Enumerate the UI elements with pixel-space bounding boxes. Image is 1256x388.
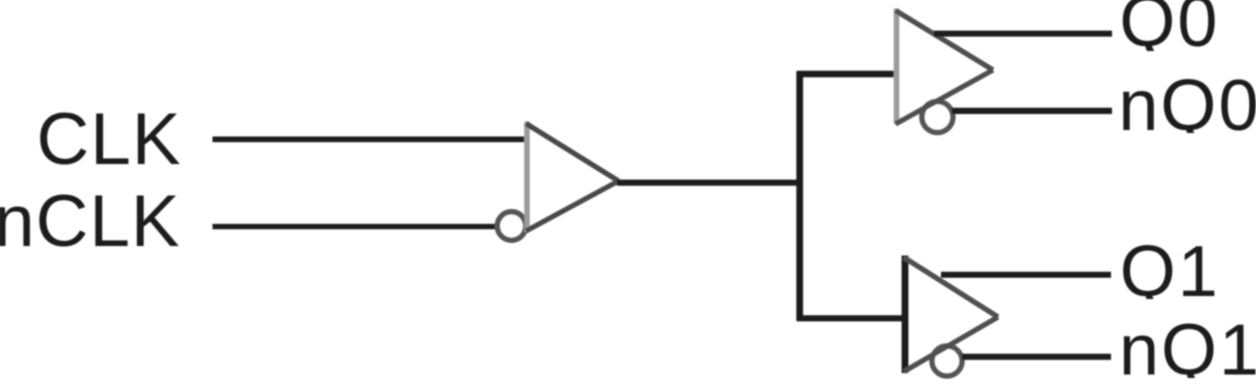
svg-text:CLK: CLK	[37, 99, 182, 180]
inversion bubble on U1 nCLK input	[497, 212, 525, 240]
svg-text:Q0: Q0	[1119, 0, 1219, 62]
wire branch to U2 input	[797, 71, 897, 78]
op-amp U3 output buffer Q1/nQ1	[904, 256, 998, 374]
wire U1 output to branch node	[617, 180, 803, 186]
wire nQ0 output	[952, 108, 1112, 114]
inversion bubble on U2 nQ0 output	[922, 102, 953, 133]
inversion bubble on U3 nQ1 output	[932, 346, 962, 376]
svg-text:Q1: Q1	[1120, 232, 1220, 312]
svg-text:nCLK: nCLK	[0, 181, 181, 262]
svg-text:nQ0: nQ0	[1118, 66, 1256, 146]
wire Q1 output	[941, 272, 1111, 278]
op-amp U2 output buffer Q0/nQ0	[896, 9, 994, 125]
wire nQ1 output	[962, 354, 1111, 360]
svg-text:nQ1: nQ1	[1119, 311, 1256, 388]
wire branch to U3 input	[797, 315, 906, 321]
wire vertical branch	[796, 71, 803, 321]
wire Q0 output	[934, 31, 1112, 37]
wire nCLK input	[213, 224, 501, 229]
op-amp U1 differential input buffer	[526, 122, 619, 233]
wire CLK input	[213, 137, 527, 143]
